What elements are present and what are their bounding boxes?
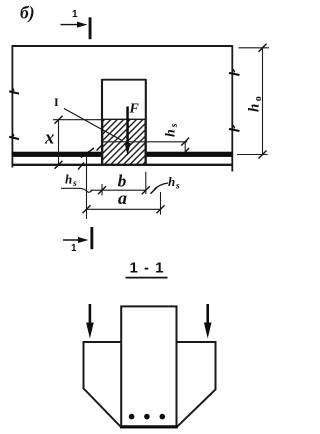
svg-text:б): б) — [20, 3, 35, 23]
section view: right load arrow — [204, 304, 212, 339]
wall panel rectangle — [12, 45, 233, 171]
dimension x tick bottom — [55, 161, 63, 169]
hs left slash at bottom edge — [78, 163, 84, 170]
section marker 1 bottom: cut bar — [90, 227, 93, 249]
svg-text:a: a — [118, 188, 127, 208]
svg-text:1 - 1: 1 - 1 — [130, 260, 165, 277]
dimension x line — [58, 120, 60, 166]
b extension left — [101, 184, 103, 196]
a ticks — [83, 205, 165, 213]
section view: body top edge right — [177, 341, 216, 343]
svg-text:I: I — [54, 95, 59, 109]
detail I leader line — [64, 109, 122, 141]
section view: body top edge left (redrawn over column fill) — [84, 341, 122, 343]
section marker 1 top: cut bar — [89, 17, 92, 39]
dimension x tick top — [55, 116, 63, 124]
section view: joint body polygon — [84, 342, 216, 427]
dimension h0 top extension — [239, 47, 270, 49]
hs bottom right slash — [151, 187, 158, 194]
dimension h0 line — [262, 48, 264, 155]
dimension h0 bottom extension — [237, 154, 268, 156]
a extension left — [86, 157, 88, 219]
b extension right — [145, 172, 147, 194]
section view: left load arrow — [86, 304, 94, 339]
hatched monolithic joint zone — [103, 119, 146, 165]
a extension right — [160, 192, 162, 215]
b ticks — [98, 186, 150, 194]
hs left slash at hatch corner — [97, 145, 103, 151]
svg-text:s: s — [72, 179, 77, 189]
svg-text:o: o — [253, 96, 264, 101]
svg-text:h: h — [65, 172, 72, 187]
hs right rotated label — [164, 123, 181, 137]
svg-text:h: h — [247, 104, 263, 112]
dimension x extension line — [53, 119, 102, 121]
hs bottom right leader arc — [154, 183, 169, 191]
floor slab band left — [12, 152, 102, 157]
section marker 1 top: arrow — [61, 22, 88, 28]
hs left leader shelf — [61, 187, 80, 189]
joint zone divider line — [102, 141, 146, 143]
hs left leader hook — [80, 188, 92, 192]
svg-text:h: h — [168, 174, 175, 189]
svg-text:s: s — [175, 182, 180, 192]
hs left slash on band — [81, 148, 94, 158]
hs bottom right label — [168, 174, 180, 192]
break symbol right edge lower — [229, 125, 240, 131]
dimension b line — [91, 189, 146, 191]
section view: column rectangle — [121, 306, 176, 427]
section title underline — [126, 277, 168, 279]
svg-text:1: 1 — [71, 243, 77, 254]
section marker 1 bottom: arrow — [63, 237, 89, 243]
break symbol left edge upper — [9, 88, 19, 94]
svg-text:h: h — [164, 129, 179, 137]
svg-text:F: F — [129, 102, 140, 117]
h0 rotated label — [247, 96, 265, 112]
section view: reinforcement dots — [129, 414, 165, 420]
dimension hs right line — [184, 142, 186, 152]
floor slab band right — [147, 152, 233, 157]
dimension a line — [87, 208, 161, 210]
force F arrow — [125, 107, 131, 156]
hs right ticks — [181, 138, 189, 156]
break symbol left edge lower — [9, 133, 19, 139]
dimension hs right of column: extension line — [146, 141, 187, 143]
h0 ticks — [259, 44, 267, 159]
svg-text:s: s — [169, 123, 180, 128]
hs left label — [65, 172, 77, 190]
svg-text:1: 1 — [72, 9, 78, 20]
column stub rectangle — [102, 79, 146, 165]
section view: bottom thick edge — [120, 425, 178, 428]
break symbol right edge upper — [229, 69, 240, 75]
svg-text:x: x — [44, 129, 54, 149]
